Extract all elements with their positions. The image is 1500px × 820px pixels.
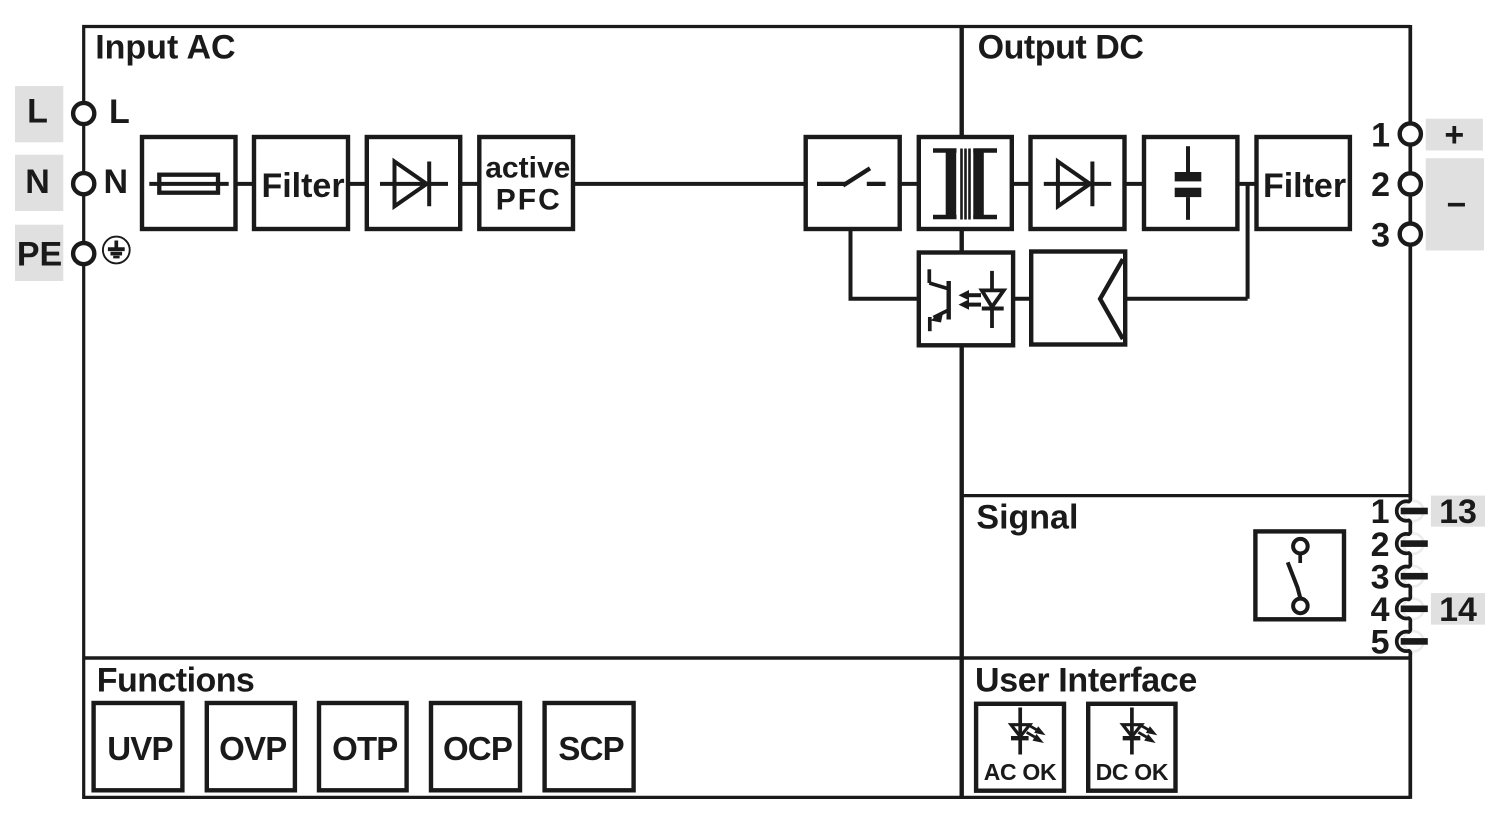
output rectifier diode [1044, 162, 1111, 207]
svg-text:AC OK: AC OK [984, 759, 1057, 785]
svg-text:5: 5 [1371, 624, 1390, 662]
terminal label box L [15, 86, 63, 142]
transformer T1 [933, 149, 997, 220]
wire fuse to filter [236, 182, 255, 186]
svg-text:Filter: Filter [261, 167, 344, 205]
svg-text:DC OK: DC OK [1096, 759, 1169, 785]
input rectifier box [367, 137, 460, 229]
capacitor box [1144, 137, 1237, 229]
amplifier chevron [1100, 259, 1123, 339]
wire amplifier to junction [1125, 297, 1247, 301]
svg-text:PFC: PFC [496, 184, 562, 217]
input rectifier diode [380, 162, 448, 207]
output terminal circle 1 [1371, 116, 1421, 154]
svg-text:SCP: SCP [558, 730, 623, 767]
active PFC box [479, 137, 573, 229]
svg-text:L: L [27, 93, 48, 131]
output rectifier box [1031, 137, 1125, 229]
svg-text:Signal: Signal [976, 499, 1078, 537]
signal terminal 5 [1371, 624, 1428, 662]
svg-text:PE: PE [17, 235, 62, 273]
svg-text:3: 3 [1371, 216, 1390, 254]
optocoupler box [919, 253, 1013, 346]
svg-text:N: N [25, 163, 50, 201]
signal terminal 1 [1371, 493, 1428, 531]
relay box [1255, 531, 1344, 619]
right border with terminal arcs [1397, 25, 1411, 799]
relay contact K1 [1288, 539, 1308, 613]
LED DC OK [1096, 708, 1169, 785]
svg-text:User Interface: User Interface [975, 661, 1197, 699]
svg-text:−: − [1446, 186, 1466, 224]
signal terminal 4 [1371, 591, 1428, 629]
wire output rectifier to capacitor [1125, 182, 1145, 186]
capacitor C1 [1175, 146, 1202, 220]
terminal circle PE [73, 243, 94, 264]
function box UVP [94, 703, 183, 790]
fuse box [142, 137, 236, 229]
function box OTP [319, 703, 407, 790]
signal terminal 2 [1371, 526, 1428, 564]
output terminal circle 2 [1371, 166, 1421, 204]
fuse F1 [149, 175, 228, 193]
svg-text:OTP: OTP [332, 730, 397, 767]
polarity label plus [1426, 116, 1483, 154]
terminal label box N [15, 155, 63, 211]
function box SCP [545, 703, 634, 790]
signal terminal 3 [1371, 558, 1428, 596]
svg-text:UVP: UVP [107, 730, 172, 767]
signal label 14 [1431, 591, 1485, 629]
amplifier box [1031, 252, 1125, 345]
wire PFC to switch [573, 182, 806, 186]
wire filter to rectifier [348, 182, 367, 186]
optocoupler U1 [929, 269, 1003, 331]
divider functions row [84, 656, 1411, 660]
function box OCP [431, 703, 520, 790]
svg-text:Input AC: Input AC [95, 28, 235, 66]
divider input/output [960, 27, 964, 798]
output filter box [1257, 137, 1350, 229]
terminal circle N [73, 173, 94, 194]
svg-text:OVP: OVP [219, 730, 286, 767]
wire junction riser [1246, 184, 1250, 299]
LED AC OK [984, 708, 1057, 785]
svg-text:Filter: Filter [1263, 167, 1346, 205]
svg-text:Functions: Functions [97, 661, 254, 699]
svg-text:active: active [485, 151, 570, 184]
wire optocoupler to amplifier [1013, 297, 1031, 301]
input filter box [254, 137, 348, 229]
protective earth symbol [103, 237, 130, 264]
transformer box [919, 137, 1012, 229]
polarity label minus [1426, 158, 1484, 250]
wire transformer to output rectifier [1012, 182, 1031, 186]
indicator box DC OK [1088, 704, 1175, 791]
svg-text:+: + [1444, 116, 1464, 154]
svg-text:14: 14 [1439, 591, 1477, 629]
terminal ghost rings [1403, 501, 1423, 652]
wire switch feedback drop [851, 229, 919, 299]
svg-text:13: 13 [1439, 493, 1477, 531]
signal label 13 [1431, 493, 1485, 531]
svg-text:N: N [104, 163, 129, 201]
svg-text:2: 2 [1371, 166, 1390, 204]
output terminal circle 3 [1371, 216, 1421, 254]
terminal label box PE [15, 225, 63, 281]
indicator box AC OK [976, 704, 1064, 791]
terminal circle L [73, 103, 94, 124]
svg-text:Output DC: Output DC [978, 28, 1144, 66]
divider signal [962, 494, 1411, 497]
svg-text:1: 1 [1371, 116, 1390, 154]
function box OVP [207, 703, 295, 790]
wire capacitor to output filter [1237, 182, 1256, 186]
wire rectifier to PFC [460, 182, 479, 186]
switch box [806, 137, 900, 229]
svg-text:OCP: OCP [443, 730, 512, 767]
svg-text:L: L [109, 93, 130, 131]
switch contact [817, 168, 886, 185]
wire switch to transformer [900, 182, 919, 186]
